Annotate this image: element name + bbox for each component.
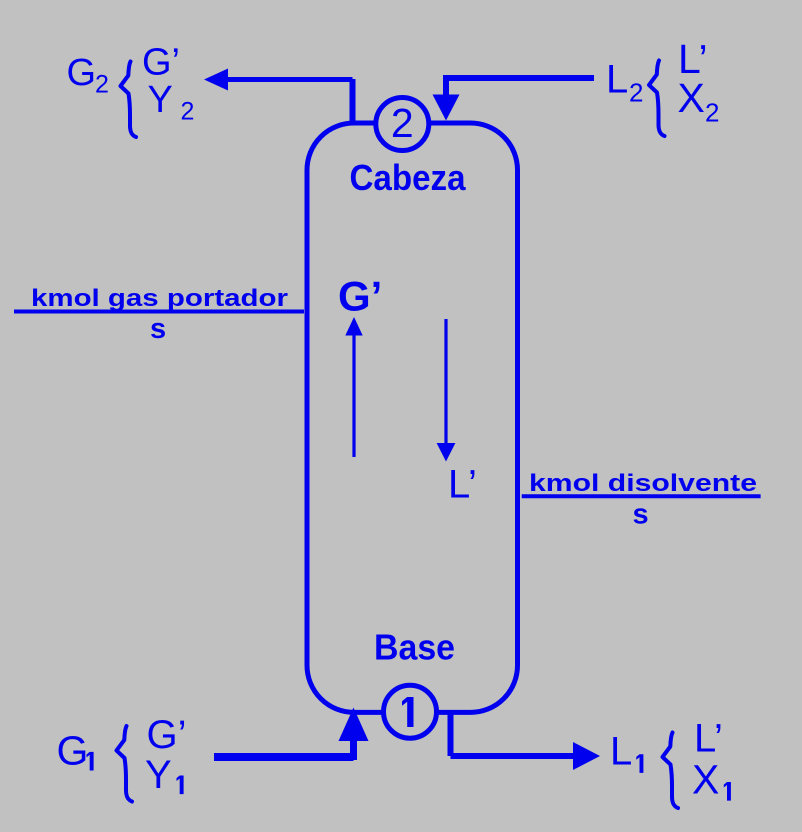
- svg-text:Y: Y: [145, 753, 172, 797]
- svg-text:X: X: [692, 757, 719, 803]
- svg-text:L’: L’: [448, 463, 477, 507]
- node circle 2 (top): [376, 98, 429, 151]
- wire: G2 horizontal line: [227, 77, 353, 82]
- svg-text:2: 2: [391, 100, 414, 146]
- svg-text:G: G: [57, 728, 89, 774]
- label G1 subscript: [87, 752, 94, 771]
- label X1 subscript: [724, 782, 731, 801]
- svg-text:s: s: [150, 313, 166, 345]
- svg-text:L: L: [606, 57, 628, 101]
- svg-text:2: 2: [181, 97, 195, 125]
- svg-text:L’: L’: [694, 716, 723, 760]
- internal up arrowhead: [345, 317, 362, 336]
- svg-text:kmol gas portador: kmol gas portador: [31, 284, 288, 312]
- node circle 1 (bottom): [384, 685, 437, 738]
- label Y1 subscript: [177, 776, 184, 795]
- fraction bar left: [14, 310, 304, 314]
- wire: L2 vertical drop: [443, 75, 449, 96]
- wire: L1 horizontal line: [451, 753, 575, 759]
- brace for L2: [649, 61, 665, 137]
- wire: G2 offtake vertical connector: [350, 79, 356, 123]
- svg-text:2: 2: [629, 77, 643, 107]
- svg-text:kmol disolvente: kmol disolvente: [529, 469, 757, 497]
- svg-text:G’: G’: [142, 41, 180, 83]
- wire: G1 vertical riser: [350, 739, 357, 760]
- svg-text:Base: Base: [374, 627, 455, 668]
- fraction bar right: [522, 494, 761, 498]
- wire: L2 horizontal line: [446, 75, 594, 81]
- brace for L1: [663, 733, 679, 809]
- column vessel (rounded rectangle): [307, 123, 518, 712]
- arrowhead G2 (points left): [204, 69, 228, 91]
- brace for G1: [117, 726, 133, 802]
- svg-text:G’: G’: [147, 713, 187, 757]
- svg-text:Y: Y: [148, 79, 173, 121]
- internal down arrow shaft (L' flow): [444, 319, 447, 444]
- internal up arrow shaft (G' flow): [352, 334, 355, 457]
- wire: G1 horizontal line: [214, 753, 354, 761]
- brace for G2: [121, 62, 137, 138]
- svg-text:Cabeza: Cabeza: [350, 157, 467, 198]
- arrowhead L1 (points right): [573, 742, 600, 770]
- svg-text:s: s: [633, 499, 649, 531]
- arrowhead L2 (points down): [433, 95, 460, 121]
- svg-text:X: X: [678, 75, 705, 121]
- arrowhead G1 (points up): [339, 708, 369, 742]
- wire: L1 vertical drop: [448, 712, 454, 756]
- internal down arrowhead: [437, 443, 456, 462]
- label 1: [402, 697, 414, 727]
- svg-text:G’: G’: [338, 272, 382, 319]
- svg-text:L: L: [610, 730, 632, 774]
- svg-text:2: 2: [705, 98, 719, 128]
- svg-text:G: G: [67, 52, 97, 94]
- svg-text:2: 2: [95, 71, 109, 99]
- label L1 subscript: [636, 754, 643, 773]
